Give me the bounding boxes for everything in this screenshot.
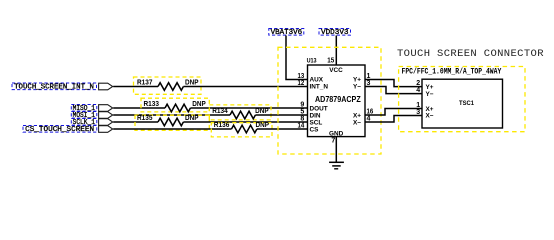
svg-text:DNP: DNP xyxy=(192,101,206,108)
wire IC pin16 X+ to connector pin1 xyxy=(365,109,422,116)
svg-text:CS: CS xyxy=(310,126,320,133)
svg-text:3: 3 xyxy=(416,109,420,116)
svg-text:R137: R137 xyxy=(137,79,153,86)
svg-text:DIN: DIN xyxy=(310,112,321,119)
wire R135 to IC pin 8 SCL xyxy=(183,121,307,123)
net label SCLK_1 xyxy=(71,118,97,127)
svg-text:7: 7 xyxy=(331,138,335,145)
net label MOSI_1 xyxy=(71,111,97,120)
net label TOUCH_SCREEN_INT_N xyxy=(12,83,97,92)
svg-text:CS_TOUCH_SCREEN: CS_TOUCH_SCREEN xyxy=(25,126,94,134)
wire CS row: flag to R136 xyxy=(113,128,231,130)
DNP yellow box around U13 circuit xyxy=(278,47,381,154)
port flag MOSI_1 xyxy=(99,112,113,119)
port flag MISO_1 xyxy=(99,105,113,112)
connector TSC1 body xyxy=(422,79,503,128)
IC U13 AD7879ACPZ body xyxy=(308,65,366,137)
svg-text:DNP: DNP xyxy=(185,79,199,86)
svg-text:14: 14 xyxy=(298,123,305,130)
svg-text:X+: X+ xyxy=(353,112,361,119)
net label CS_TOUCH_SCREEN xyxy=(23,125,97,134)
resistor R134 (DNP) xyxy=(209,105,271,120)
wire R137 to IC pin 12 INT_N xyxy=(183,86,307,88)
ground xyxy=(329,162,344,169)
svg-text:X−: X− xyxy=(426,113,434,120)
svg-text:8: 8 xyxy=(300,116,304,123)
svg-text:Y−: Y− xyxy=(353,84,361,91)
svg-text:R134: R134 xyxy=(212,108,228,115)
svg-text:TOUCH_SCREEN_INT_N: TOUCH_SCREEN_INT_N xyxy=(14,84,94,92)
power net VDD3V3 xyxy=(319,29,351,37)
svg-text:Y−: Y− xyxy=(426,91,434,98)
svg-text:FPC/FFC_1.0MM_R/A_TOP_4WAY: FPC/FFC_1.0MM_R/A_TOP_4WAY xyxy=(402,68,502,77)
wire IC pin4 X- to connector pin3 xyxy=(365,116,422,123)
svg-text:1: 1 xyxy=(416,102,420,109)
wire GND pin 7 xyxy=(335,137,337,162)
resistor R136 (DNP) xyxy=(211,122,272,137)
port flag TOUCH_SCREEN_INT_N xyxy=(99,83,113,90)
svg-text:Y+: Y+ xyxy=(353,77,361,84)
svg-text:R135: R135 xyxy=(137,115,153,122)
wire VDD3V3 to VCC pin 15 xyxy=(335,36,337,66)
svg-text:INT_N: INT_N xyxy=(310,84,329,91)
wire R136 to IC pin 14 CS xyxy=(257,128,308,130)
wire SCLK row: flag to R135 xyxy=(113,121,158,123)
svg-text:X−: X− xyxy=(353,119,361,126)
svg-text:R133: R133 xyxy=(144,101,160,108)
svg-text:13: 13 xyxy=(298,73,305,80)
svg-text:TSC1: TSC1 xyxy=(459,100,474,107)
svg-text:SCL: SCL xyxy=(310,119,323,126)
svg-text:12: 12 xyxy=(298,80,305,87)
svg-text:2: 2 xyxy=(416,80,420,87)
svg-text:TOUCH SCREEN CONNECTOR: TOUCH SCREEN CONNECTOR xyxy=(397,48,544,60)
wire R134 to IC pin 5 DIN xyxy=(255,114,307,116)
wire INT row: flag to R137 xyxy=(113,86,158,88)
resistor R137 (DNP) xyxy=(134,77,202,94)
wire IC pin1 Y+ to connector pin2 xyxy=(365,80,422,87)
svg-text:DNP: DNP xyxy=(256,122,270,129)
svg-text:DOUT: DOUT xyxy=(310,105,328,112)
svg-text:DNP: DNP xyxy=(255,108,269,115)
svg-text:9: 9 xyxy=(300,102,304,109)
wire MISO row: flag to R133 xyxy=(113,107,165,109)
resistor R135 (DNP) xyxy=(135,115,209,130)
port flag SCLK_1 xyxy=(99,119,113,126)
power net VBAT3V6 xyxy=(269,29,304,37)
wire IC pin3 Y- to connector pin4 xyxy=(365,87,422,94)
svg-text:U13: U13 xyxy=(307,58,317,65)
svg-text:VCC: VCC xyxy=(329,67,343,74)
svg-text:4: 4 xyxy=(416,87,420,94)
svg-text:VDD3V3: VDD3V3 xyxy=(321,29,349,37)
DNP yellow box around connector TSC1 xyxy=(399,67,525,132)
wire R133 to IC pin 9 DOUT xyxy=(190,107,307,109)
svg-text:R136: R136 xyxy=(214,122,230,129)
wire VBAT3V6 to AUX pin 13 xyxy=(286,36,308,80)
port flag CS_TOUCH_SCREEN xyxy=(99,126,113,133)
svg-text:AD7879ACPZ: AD7879ACPZ xyxy=(315,94,361,104)
svg-text:15: 15 xyxy=(327,58,334,65)
wire MOSI row: flag to R134 xyxy=(113,114,230,116)
net label MISO_1 xyxy=(71,104,97,113)
svg-text:5: 5 xyxy=(300,109,304,116)
svg-text:AUX: AUX xyxy=(310,77,324,84)
resistor R133 (DNP) xyxy=(141,98,209,112)
svg-text:DNP: DNP xyxy=(185,115,199,122)
